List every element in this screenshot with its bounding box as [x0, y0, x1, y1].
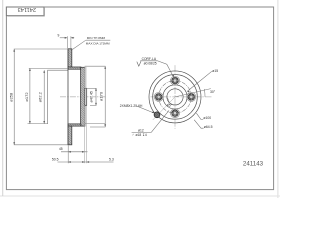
- svg-text:50.5: 50.5: [52, 157, 59, 161]
- pilot boss at hub: [85, 88, 87, 105]
- leader and label D100: [196, 113, 203, 119]
- 45 degree arc and label: [167, 97, 170, 103]
- leader and label D15: [187, 71, 212, 91]
- title box top-left: [6, 7, 44, 16]
- page background: [0, 0, 280, 198]
- dimension line D172: [29, 68, 31, 123]
- note leader: [72, 40, 86, 49]
- svg-text:MAX DIA 173MM: MAX DIA 173MM: [86, 42, 110, 46]
- svg-text:ø47.45: ø47.45: [89, 91, 93, 102]
- drawing frame: [6, 7, 273, 190]
- svg-text:ø12: ø12: [138, 128, 144, 132]
- hub circle: [163, 85, 187, 109]
- svg-text:241143: 241143: [18, 6, 36, 12]
- vertical centerline: [174, 65, 176, 129]
- 30 degree radial line: [175, 89, 211, 97]
- svg-text:ø258: ø258: [8, 92, 13, 102]
- svg-text:ø62.2: ø62.2: [38, 91, 43, 102]
- extension stub for hub bore bottom: [90, 104, 97, 106]
- svg-text:ø15: ø15: [212, 69, 218, 73]
- dimension line D62.2: [43, 70, 45, 123]
- svg-text:9: 9: [57, 34, 59, 38]
- dimension 45 extension line left: [67, 145, 69, 163]
- extension line bottom OD: [14, 144, 68, 146]
- extension line bottom wall right: [85, 122, 106, 124]
- note D12 leader: [151, 110, 169, 132]
- drum wall top (hatched section): [68, 67, 81, 69]
- note 2XM8 leader: [137, 106, 155, 113]
- svg-text:ø170: ø170: [98, 91, 103, 101]
- leader and label D64.5: [194, 120, 203, 128]
- dimension line D47.45 hub bore: [95, 88, 97, 105]
- dimension line D170: [104, 66, 106, 127]
- hat outer edge line: [67, 49, 69, 145]
- extension line hat top right: [85, 65, 106, 67]
- svg-text:CORF-LA: CORF-LA: [142, 57, 157, 61]
- friction ring top (hatched section): [68, 49, 72, 67]
- dimension 50.5 line: [58, 161, 114, 163]
- svg-text:45°: 45°: [167, 103, 173, 107]
- M8 service hole SW: [153, 97, 175, 120]
- runout check symbol: [137, 61, 141, 66]
- page edge shadow bottom: [0, 196, 280, 197]
- back plate (hatched section): [81, 67, 85, 126]
- svg-text:5.3: 5.3: [109, 157, 114, 161]
- page edge shadow right: [277, 0, 278, 198]
- friction ring bottom (hatched section): [68, 126, 72, 145]
- extension line lower mid: [28, 123, 48, 125]
- drum wall bottom (hatched section): [68, 124, 81, 126]
- extension line upper mid: [29, 67, 68, 69]
- thickness 9 extension lines: [66, 36, 68, 48]
- bolt circle (dash-dot): [159, 81, 192, 114]
- runout leader: [157, 61, 173, 77]
- extension line hat bottom right: [90, 126, 105, 128]
- bolt hole N: [171, 76, 180, 85]
- centerline of section: [60, 96, 107, 98]
- drum interior silhouette: [48, 70, 68, 124]
- drum circle: [153, 75, 198, 120]
- svg-text:⌏ ø18 ↧4: ⌏ ø18 ↧4: [132, 133, 147, 137]
- svg-text:30°: 30°: [210, 90, 216, 94]
- bolt hole W: [154, 92, 163, 101]
- svg-text:ø100: ø100: [203, 116, 211, 120]
- svg-text:ø172: ø172: [24, 92, 29, 102]
- center bore circle: [167, 89, 183, 105]
- bolt centerline ticks: [154, 76, 197, 119]
- pilot face extension lines: [84, 66, 86, 88]
- dimension 45 line: [61, 151, 88, 153]
- horizontal centerline: [151, 96, 212, 98]
- bolt hole E: [187, 92, 196, 101]
- thickness 9 dimension line left: [60, 37, 68, 39]
- outer circle: [149, 71, 201, 123]
- 30 degree arc: [203, 89, 206, 97]
- svg-text:45: 45: [59, 147, 63, 151]
- extension line top OD: [14, 48, 68, 50]
- svg-text:MIN TH 8MM: MIN TH 8MM: [87, 36, 106, 40]
- svg-text:ø0.08/25: ø0.08/25: [144, 62, 157, 66]
- svg-text:ø64.5: ø64.5: [204, 125, 213, 129]
- dimension line D258: [13, 49, 15, 145]
- extension stub for hub bore top: [85, 87, 97, 89]
- thickness 9 dimension line right: [71, 37, 74, 39]
- bolt hole S: [171, 109, 180, 118]
- svg-text:241143: 241143: [243, 160, 264, 167]
